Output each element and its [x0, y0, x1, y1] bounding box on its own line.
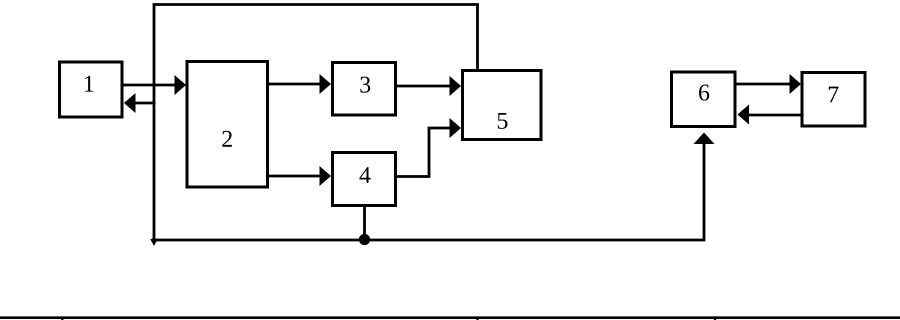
wire block 3 to block 5	[397, 76, 461, 96]
wire block 4 to block 5	[397, 118, 461, 177]
block 7	[802, 73, 865, 127]
wire block 2 to block 3	[269, 74, 331, 94]
wire bottom bus	[152, 239, 705, 242]
table column divider tick 3	[714, 317, 716, 320]
wire feedback loop from node above block 5 to bottom bus	[150, 5, 477, 247]
block 4	[333, 153, 396, 206]
wire block 7 to block 6	[738, 105, 801, 125]
wire bus to block 6 input	[694, 133, 715, 241]
wire block 2 to block 4	[269, 166, 331, 186]
table top border line	[0, 316, 900, 319]
junction dot on bus	[359, 234, 370, 245]
block 5	[463, 71, 542, 140]
block 2	[187, 62, 268, 188]
wire block 4 to bottom bus	[363, 207, 366, 240]
table column divider tick 2	[476, 317, 478, 320]
block 6	[672, 72, 736, 127]
block 1	[60, 62, 123, 117]
table column divider tick 1	[61, 317, 63, 320]
wire return to block 1	[124, 93, 156, 113]
wire block 6 to block 7	[737, 74, 802, 94]
block 3	[333, 63, 396, 116]
wire block 1 to block 2	[123, 75, 186, 95]
